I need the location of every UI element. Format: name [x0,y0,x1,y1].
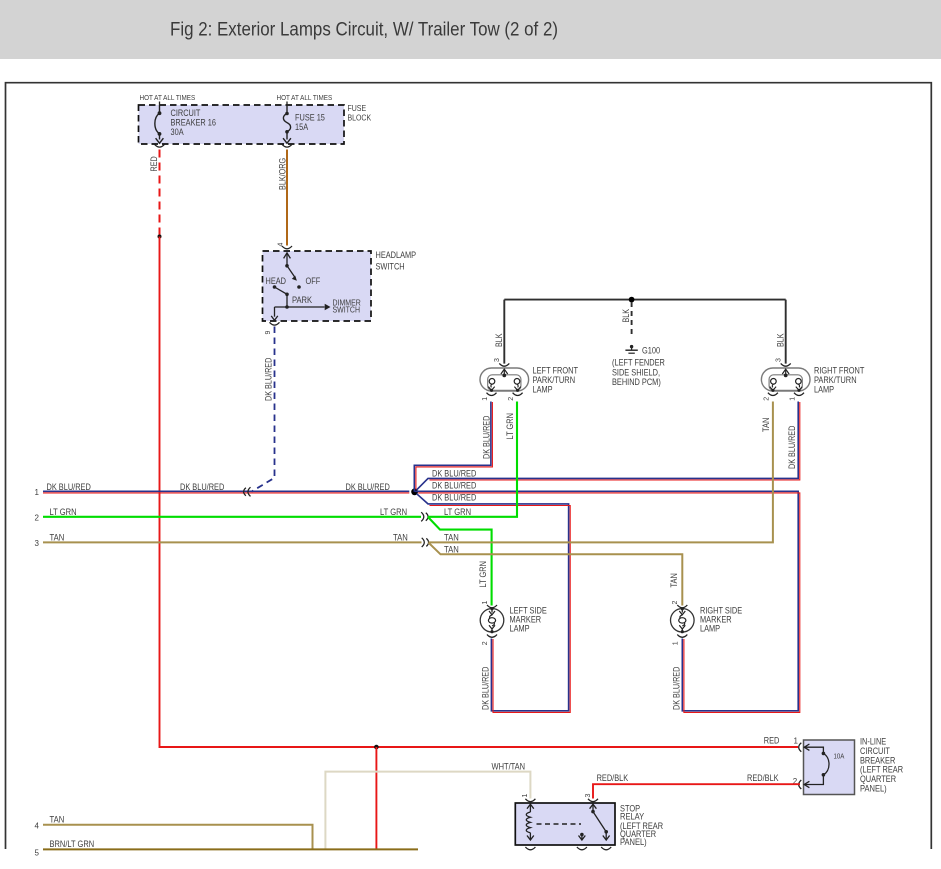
svg-text:TAN: TAN [444,545,459,555]
LEFT FRONT PARK/TURN LAMP bulbs [489,379,495,385]
wire LT GRN to left front lamp pin 2 [428,402,517,517]
svg-text:2: 2 [764,397,771,401]
svg-text:BLK: BLK [494,333,504,347]
svg-text:TAN: TAN [393,533,408,543]
feed stub to circuit breaker [159,102,161,106]
svg-text:3: 3 [494,358,501,362]
wire DK BLU/RED to left front lamp pin 1 [414,402,491,492]
wire RED/BLK from stop relay pin 3 to breaker pin 2 [593,784,800,798]
svg-text:HEADLAMP: HEADLAMP [376,250,417,260]
title bar [0,0,941,59]
wire 1 DK BLU/RED horizontal [43,490,409,492]
svg-text:2: 2 [482,641,489,645]
svg-text:DK BLU/RED: DK BLU/RED [432,469,477,479]
stop relay coil [526,804,534,840]
svg-text:SIDE SHIELD,: SIDE SHIELD, [612,368,660,378]
LEFT SIDE MARKER LAMP filament [488,609,495,632]
wire BLK to left lamp pin 3 [503,300,505,364]
svg-text:BLK: BLK [776,333,786,347]
LEFT SIDE MARKER LAMP body [480,609,504,633]
wire DK BLU/RED dashed from headlamp switch [252,327,275,492]
wire 3 TAN [43,541,422,543]
svg-text:PARK: PARK [292,295,312,305]
svg-text:LT GRN: LT GRN [478,561,488,588]
stop relay switch [579,804,610,840]
connector at RIGHT FRONT PARK/TURN LAMP pin 3 [781,363,791,366]
svg-text:2: 2 [35,514,40,523]
svg-text:1: 1 [522,794,529,798]
wire 5 BRN/LT GRN [43,848,418,850]
svg-text:LT GRN: LT GRN [380,507,407,517]
svg-text:DK BLU/RED: DK BLU/RED [787,426,797,469]
in-line circuit breaker box [804,740,855,795]
svg-text:RELAY: RELAY [620,812,644,822]
svg-text:1: 1 [790,397,797,401]
wire RED dashed (fusible link section) [159,150,161,236]
svg-text:2: 2 [672,601,679,605]
svg-text:TAN: TAN [50,815,65,825]
svg-text:LEFT FRONT: LEFT FRONT [533,366,579,376]
svg-text:5: 5 [35,849,40,858]
junction dot wire 1 [411,488,418,495]
svg-text:3: 3 [775,358,782,362]
svg-text:BLK: BLK [621,309,631,323]
svg-text:LAMP: LAMP [533,385,553,395]
wire RED vertical bottom [375,747,377,849]
svg-text:10A: 10A [834,752,845,761]
ground G100 [630,345,633,348]
connector at headlamp switch pin 9 [270,322,280,325]
svg-text:BRN/LT GRN: BRN/LT GRN [50,839,95,849]
headlamp switch internals [271,253,324,320]
wire LT GRN branch to left side marker pin 1 [428,517,492,606]
svg-text:DK BLU/RED: DK BLU/RED [482,416,492,459]
svg-text:LT GRN: LT GRN [50,507,77,517]
svg-text:PARK/TURN: PARK/TURN [533,375,576,385]
svg-text:BLOCK: BLOCK [348,113,372,123]
wire 4 TAN [43,825,313,850]
svg-text:SWITCH: SWITCH [333,305,361,315]
svg-text:TAN: TAN [669,573,679,587]
svg-text:PANEL): PANEL) [620,837,647,847]
stop relay dashed link [537,823,582,825]
LEFT FRONT PARK/TURN LAMP bulb leads [488,384,521,390]
svg-text:4: 4 [35,822,40,831]
svg-text:DK BLU/RED: DK BLU/RED [672,667,682,710]
connector at LEFT SIDE MARKER LAMP bottom [487,635,497,638]
wire BLK to right lamp pin 3 [785,300,787,364]
wire WHT/TAN [325,772,530,850]
connector at headlamp switch pin 4 [282,246,292,249]
LEFT FRONT PARK/TURN LAMP entry arrow [501,369,508,375]
svg-text:LT GRN: LT GRN [444,507,471,517]
svg-text:4: 4 [278,243,285,247]
wire DK BLU/RED to left side marker pin 2 [417,494,569,711]
junction dot RED bottom [374,745,379,750]
junction dot BLK [629,297,635,303]
svg-text:RED: RED [764,736,780,746]
svg-text:PANEL): PANEL) [860,784,887,794]
connector at RIGHT SIDE MARKER LAMP bottom [677,635,687,638]
connector below circuit breaker [155,144,165,147]
svg-text:RED: RED [149,156,159,171]
svg-text:1: 1 [482,397,489,401]
svg-text:DK BLU/RED: DK BLU/RED [180,482,225,492]
wire RED solid down to bottom feed [160,237,799,748]
in-line circuit breaker internals [804,744,829,788]
LEFT FRONT PARK/TURN LAMP body [480,368,529,391]
fuse block box [139,105,345,144]
svg-text:15A: 15A [295,122,308,132]
svg-text:HEAD: HEAD [266,276,287,286]
svg-text:CIRCUIT: CIRCUIT [171,108,201,118]
svg-text:1: 1 [35,488,40,497]
stop relay box [515,803,615,845]
connectors at LEFT FRONT PARK/TURN LAMP pins 1/2 [487,393,497,396]
RIGHT FRONT PARK/TURN LAMP body [761,368,810,391]
wire 2 LT GRN [43,516,421,518]
svg-text:1: 1 [794,737,799,746]
svg-text:RED/BLK: RED/BLK [747,773,779,783]
svg-text:1: 1 [673,641,680,645]
svg-text:DK BLU/RED: DK BLU/RED [264,358,274,401]
svg-text:TAN: TAN [761,418,771,432]
connectors below stop relay [525,847,535,850]
svg-text:(LEFT FENDER: (LEFT FENDER [612,358,665,368]
connector at RIGHT SIDE MARKER LAMP top [677,605,687,608]
RIGHT SIDE MARKER LAMP filament [679,609,686,632]
svg-text:WHT/TAN: WHT/TAN [492,762,526,772]
svg-text:DK BLU/RED: DK BLU/RED [481,667,491,710]
wire DK BLU/RED to right side marker pin 1 [415,491,799,711]
RIGHT FRONT PARK/TURN LAMP entry arrow [782,369,789,375]
wire BLK/ORG [286,150,288,246]
svg-text:LAMP: LAMP [814,385,834,395]
svg-text:G100: G100 [642,346,660,356]
in-line connector on wire 3 [422,538,425,547]
svg-text:OFF: OFF [306,276,321,286]
svg-text:DK BLU/RED: DK BLU/RED [47,482,92,492]
connector at LEFT SIDE MARKER LAMP top [487,605,497,608]
svg-text:DK BLU/RED: DK BLU/RED [432,493,477,503]
svg-text:3: 3 [585,794,592,798]
svg-text:30A: 30A [171,127,184,137]
svg-text:TAN: TAN [444,533,459,543]
RIGHT SIDE MARKER LAMP body [671,609,695,633]
svg-text:1: 1 [482,601,489,605]
svg-text:FUSE: FUSE [348,103,367,113]
fuse 15 symbol [283,105,291,143]
circuit breaker 16 symbol [155,105,164,143]
svg-text:DK BLU/RED: DK BLU/RED [432,481,477,491]
headlamp switch box [263,251,372,321]
svg-text:SWITCH: SWITCH [376,262,405,272]
wire DK BLU/RED to right front lamp pin 1 [417,402,799,490]
connector at LEFT FRONT PARK/TURN LAMP pin 3 [499,363,509,366]
svg-text:PARK/TURN: PARK/TURN [814,375,857,385]
svg-text:BEHIND PCM): BEHIND PCM) [612,377,661,387]
svg-text:RIGHT FRONT: RIGHT FRONT [814,366,865,376]
svg-text:DK BLU/RED: DK BLU/RED [346,482,391,492]
RIGHT FRONT PARK/TURN LAMP bulb leads [770,384,803,390]
svg-text:2: 2 [508,397,515,401]
svg-text:LAMP: LAMP [510,624,530,634]
svg-text:HOT AT ALL TIMES: HOT AT ALL TIMES [277,93,333,102]
RIGHT FRONT PARK/TURN LAMP bulbs [771,379,777,385]
wire BLK dashed to ground [631,302,633,338]
connector below fuse [282,144,292,147]
wire TAN to right front lamp pin 2 [429,402,773,543]
feed stub to fuse 15 [286,102,288,106]
connectors at RIGHT FRONT PARK/TURN LAMP pins 1/2 [768,393,778,396]
svg-text:HOT AT ALL TIMES: HOT AT ALL TIMES [140,93,196,102]
svg-text:LAMP: LAMP [700,624,720,634]
svg-text:TAN: TAN [50,533,65,543]
splice dot on RED wire [158,235,162,239]
svg-text:BREAKER 16: BREAKER 16 [171,118,217,128]
svg-text:9: 9 [265,331,272,335]
svg-text:3: 3 [35,539,40,548]
connectors at in-line breaker pins [799,743,802,752]
wire BLK ground bus [504,299,785,301]
svg-text:FUSE 15: FUSE 15 [295,113,325,123]
wire TAN branch to right side marker pin 2 [429,543,683,606]
connectors at stop relay pins 1/3 [525,799,535,802]
in-line connector on wire 1 [248,487,251,496]
svg-text:Fig 2: Exterior Lamps Circuit,: Fig 2: Exterior Lamps Circuit, W/ Traile… [170,20,558,41]
svg-text:RED/BLK: RED/BLK [597,773,629,783]
svg-text:LT GRN: LT GRN [505,413,515,440]
in-line connector on wire 2 [421,512,424,521]
